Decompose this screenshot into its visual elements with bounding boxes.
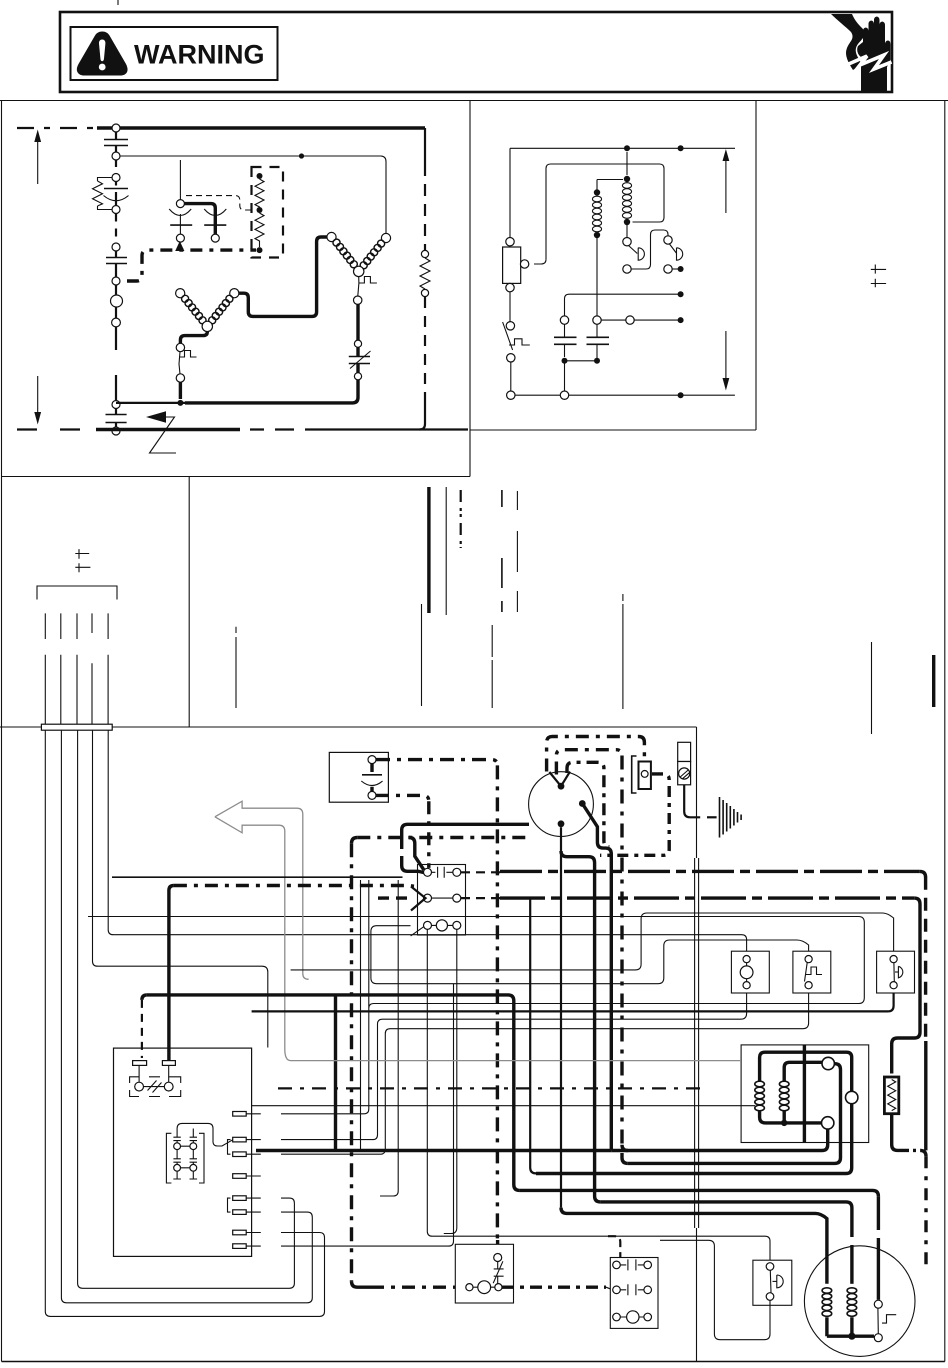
wire: row 1201.9 to coil M2 column — [600, 1202, 852, 1237]
node: transformer terminal T1 — [822, 1057, 834, 1069]
wire: A2 corner down x=920 and jog to center column — [892, 898, 920, 1073]
node: terminal — [112, 277, 120, 285]
wire: right page border — [944, 101, 946, 1362]
wire: A1 corner down into dashed column x=925.6 — [920, 871, 926, 877]
relay top contact gap — [432, 867, 453, 878]
wire: dash-dot column x=428.8 to relay — [427, 801, 430, 868]
node: large terminal — [111, 295, 123, 307]
capacitor plates — [370, 764, 373, 772]
wire: bundle w2 loop to terminal — [61, 730, 312, 1303]
node: box3 terminals blade and bell — [890, 956, 897, 963]
wire: thin rail y=156 to winding — [120, 156, 386, 234]
wire: staircase branch down to row 1212.2 — [560, 827, 562, 1207]
warning triangle icon — [77, 32, 128, 76]
wire: compressor R diagonal into column x=611.3 — [582, 804, 611, 1151]
wire: dashed link box G to box H — [502, 1285, 606, 1288]
wire: hanging drop x=421.5 — [421, 604, 423, 706]
ground screw — [679, 768, 690, 779]
node: junction on rail — [299, 153, 304, 158]
node: overload top terminal — [176, 343, 184, 351]
node: overload bottom terminal — [176, 374, 184, 382]
wire: row 969.9 with jog up to row 913 to box3 — [291, 913, 894, 970]
wire: t2 run up to row 1019 to fan box1 — [281, 989, 747, 1139]
wire: dashed column continues — [115, 214, 117, 243]
transformer coil S — [779, 1081, 789, 1111]
dimension arrow lower right — [725, 331, 727, 379]
top-middle schematic: low-voltage control section — [503, 145, 735, 399]
wire: divider between left and middle top boxes x=470 — [469, 101, 471, 477]
capacitor C1 — [560, 316, 568, 324]
wire: dashed drop to bottom rail — [424, 297, 426, 392]
wire: horizontal divider y=727 — [0, 726, 697, 728]
board terminal t7 — [233, 1230, 247, 1235]
wire: thick jumper between contacts — [184, 204, 215, 235]
wire: D loop to start device — [547, 737, 645, 772]
node: sensor terminals row1 — [174, 1143, 181, 1150]
aux contact box H2 — [753, 1260, 792, 1305]
arrow marker left (grey) — [215, 801, 309, 979]
wire: coil S top to T1 — [784, 1062, 822, 1081]
wire: E loop into dashed column x=622 — [556, 750, 622, 775]
compressor circle — [529, 772, 594, 837]
wire: dash-dot from cap bottom to relay column — [376, 795, 429, 801]
node: box1 terminals and coil — [743, 956, 750, 963]
node: capacitor HERM terminal — [368, 756, 376, 764]
resistor R zigzag — [888, 1080, 896, 1111]
wire: t3 run up to row 1028.7 to box2 — [281, 989, 809, 1154]
dimension arrow upper left — [37, 141, 39, 184]
wire: row 1150.5 right segment to T3 — [611, 1129, 827, 1150]
wire: jumper link with slashes — [144, 1081, 165, 1093]
wire: open arrowhead into relay mid — [411, 887, 426, 911]
node: rail junction dot — [177, 400, 183, 406]
transformer box outline — [741, 1045, 869, 1143]
wire: A1 column solid part — [924, 1041, 927, 1150]
node: compressor terminals C R S — [558, 783, 565, 790]
wire: C1 feed rail y=294.2 — [565, 294, 681, 316]
node: rect top terminal — [506, 238, 514, 246]
wire: thick drop x=428.9 — [427, 487, 430, 613]
wire: bottom dash-dot rail y=430 — [17, 428, 82, 430]
relay bottom blade and motor dot — [411, 927, 424, 936]
node: strip row1 contacts — [613, 1261, 621, 1269]
node: transformer terminal T3 — [822, 1117, 834, 1129]
wire: dash-dot drop x=460.7 — [460, 490, 462, 548]
node: rect side terminal — [520, 260, 528, 268]
node: contact1 bottom terminal — [176, 234, 184, 242]
bottom misc rows and small component boxes — [252, 951, 915, 1339]
wire: bridge S1 bottom to S2 top — [631, 230, 668, 269]
wire: conduit double line on center divider — [695, 858, 699, 1228]
motor coil M1 — [822, 1288, 832, 1317]
start device bracket — [632, 756, 637, 793]
ground symbol — [720, 797, 742, 838]
wire: thick stub x=933.7 — [932, 655, 935, 707]
node: motor switch bottom — [874, 1334, 882, 1342]
wire: middle box right edge x=756 — [755, 101, 757, 431]
node: terminal — [112, 243, 120, 251]
wire: label stub x=236 — [235, 627, 237, 708]
electric shock hand icon — [831, 14, 892, 92]
node: resistor RH bottom terminal — [421, 289, 428, 296]
node: bottom rail left terminal — [507, 391, 515, 399]
wire: drop x=530.2 from A2 row to row 1173.4 — [530, 898, 536, 1173]
node: motor switch top — [874, 1300, 882, 1308]
node: strip row2 contacts — [613, 1286, 621, 1294]
node: terminal — [112, 174, 120, 182]
pressure switch PS — [506, 322, 514, 330]
wire: F loop into column x=603.9 — [567, 762, 609, 846]
node: thermostat terminals — [466, 1284, 473, 1291]
wire: drop x=518.5 — [516, 491, 518, 612]
crop marks left column — [75, 549, 90, 572]
wire: stub row 2 — [45, 655, 108, 724]
wire: stub x=871.5 — [871, 642, 873, 734]
control board outline — [114, 1048, 252, 1256]
contactor M contact 2 arc — [204, 209, 226, 216]
wire: thick row 994.9 from board — [147, 995, 520, 1191]
capacitor CA upper plates — [104, 140, 128, 146]
wire: aux bottom loop to left — [660, 1240, 770, 1339]
node: terminal T1 — [112, 152, 120, 160]
wire: second rail y=164 with drops — [534, 164, 664, 264]
board terminal t8 — [233, 1244, 247, 1249]
page top tick — [117, 0, 119, 5]
wire: motor common bottom — [827, 1317, 874, 1336]
thermostat contact with slash — [493, 1261, 503, 1283]
wire: coil1 to contact1 — [626, 222, 628, 238]
contact S2 — [664, 236, 672, 244]
sensor stands — [173, 1171, 197, 1179]
wire: relay left bottom drop to row 1236 to aux box — [427, 929, 770, 1262]
motor circle — [804, 1246, 915, 1357]
arrowhead up on control run — [175, 241, 184, 251]
terminal strip box H — [610, 1258, 658, 1329]
wire: bundle w3 loop to terminal — [78, 730, 295, 1288]
run capacitor box — [329, 752, 388, 802]
wire: A2 row 898.1 from relay to right — [461, 897, 500, 899]
sensor contact block brackets — [166, 1133, 204, 1183]
wire: dashed row 885.5 from board — [174, 884, 414, 888]
banner inner label box — [71, 27, 278, 80]
capacitor CB plate and arc — [104, 188, 128, 190]
relay mid link — [432, 897, 453, 899]
transformer core bar — [803, 1045, 806, 1143]
sensor contact plates row2 — [173, 1150, 197, 1163]
wire: coil2 drop to capacitor — [596, 235, 598, 316]
wire: dash-dot column x=351.5 down to defrost row — [352, 838, 358, 844]
node: rect bottom terminal — [506, 283, 514, 291]
resistor RC — [255, 213, 264, 247]
node: Y1 center — [354, 266, 364, 276]
dimension arrow upper right — [725, 160, 727, 213]
wire: B left corner down to relay — [402, 824, 408, 840]
node: junction dot — [257, 207, 263, 213]
wire: C branch down into relay arrow — [409, 838, 424, 870]
banner outer box — [60, 12, 892, 92]
node: switch bottom terminal — [354, 373, 361, 380]
node: terminal on bottom rail — [112, 427, 120, 435]
field wiring bracket — [37, 586, 117, 600]
wire: A1 dashes from relay — [461, 871, 500, 873]
wire: staircase row 1150.5 left from board area — [334, 995, 337, 1151]
wire: bundle w1 loop to terminal — [45, 730, 324, 1316]
wire: thick to bottom rail junction — [185, 380, 358, 403]
field splice marker arrow — [146, 411, 166, 422]
wire: long row 870.9 A1 — [112, 876, 403, 878]
capacitor CC plates — [106, 258, 127, 264]
wire: dash-dot from cap top to defrost column — [376, 760, 497, 766]
winding Y1 left coil — [327, 232, 336, 241]
wire: grey row 1061 — [285, 1049, 741, 1061]
wire: terminal bracket pair marks — [228, 1140, 231, 1213]
bottom-right: heater resistor, transformer, motor feeds — [256, 827, 926, 1356]
wire: L1 top dash-dot feed — [17, 127, 97, 129]
middle band: field wiring drops — [37, 487, 623, 730]
jumper plug dashed box — [130, 1077, 181, 1097]
wire: rail continues thin to T-column — [116, 402, 185, 404]
wire: relay right bottom drop — [444, 929, 457, 1233]
switch HP plates with slash — [349, 357, 370, 364]
warning banner — [60, 12, 892, 92]
board terminal t4 — [233, 1174, 247, 1179]
wire: sensor link to terminal — [177, 1123, 233, 1146]
defrost relay box — [418, 865, 466, 936]
wire: t8 run to row 1105.7 branch — [281, 984, 454, 1246]
wire: bundle w5 over to fan box1 — [108, 730, 746, 955]
wire: capacitor commons — [565, 360, 598, 362]
wire: start device to ground column — [600, 774, 669, 855]
wire: right branch down x=425 — [424, 128, 426, 164]
node: aux terminals blade bell — [766, 1263, 774, 1271]
wire: C2 rail y=320.1 — [601, 319, 680, 321]
board terminal lug B — [162, 1061, 175, 1066]
screw terminal strip — [678, 742, 691, 761]
node: terminal — [112, 318, 121, 327]
wire: terminal stubs — [246, 1114, 261, 1246]
wire: drop x=446.2 — [445, 487, 447, 615]
wire: stub row 1 — [45, 613, 108, 639]
board terminal lug A — [133, 1061, 147, 1066]
wire: lug B drop to jumper — [168, 1065, 170, 1082]
wire: transformer primary loop and row 1173.5 — [536, 1052, 852, 1173]
resistor RA bleed with taps — [98, 178, 113, 210]
warning triangle exclamation — [99, 40, 105, 62]
wire: dashed column x=116 — [115, 160, 117, 174]
node: sensor terminals row2 — [174, 1164, 181, 1171]
overload pulse symbol Y2 — [179, 351, 197, 365]
wire: branch down into box H top — [608, 1236, 620, 1258]
wire: thin row 1105.7 — [252, 1105, 755, 1107]
wire: row 1190.4 to motor switch column — [520, 1190, 879, 1196]
wire: left drop to transformer rect — [509, 148, 511, 237]
transformer TR rect — [503, 247, 521, 283]
wire: S2 bottom stub to dot — [672, 268, 680, 270]
wire: left page border — [1, 101, 3, 1362]
node: relay contacts right column — [453, 868, 461, 876]
wire: top rail y=148.3 — [510, 147, 735, 149]
wire: mid-left divider x=189 — [188, 477, 190, 728]
node: jumper terminal B — [164, 1082, 173, 1091]
wire: dash-dot column x=497.4 down to thermostat — [496, 765, 499, 1240]
wire: Y2 center to overload — [180, 332, 207, 344]
wire: resistor bottom jog right into dashed column — [892, 1114, 906, 1151]
crop marks right column — [871, 265, 886, 288]
transformer coil P — [755, 1081, 765, 1111]
wire: compressor C drop to column x=594.6 — [561, 851, 600, 1202]
board terminal t5 — [233, 1196, 247, 1201]
motor coil M2 — [847, 1288, 857, 1316]
motor switch pulse symbol — [882, 1315, 896, 1323]
wire: screw lead to ground — [684, 785, 700, 818]
node: contact2 bottom terminal — [211, 234, 219, 242]
wire: thick drop to HP switch — [356, 304, 359, 340]
wire: board feed column x=141.9 dashed — [141, 1000, 143, 1058]
wire: middle box bottom edge — [470, 429, 756, 431]
wire: coil P bottom to T3 row — [760, 1111, 822, 1123]
node: junction dot bottom — [257, 247, 263, 253]
wire: center bottom divider x=696.5 — [696, 727, 698, 1362]
bottom-left: wire bundle, loops and control board — [45, 730, 864, 1316]
relay coil dashed box — [252, 167, 284, 258]
wire: thin drop x=360.5 — [360, 880, 362, 1151]
overload pulse symbol Y1 — [359, 277, 377, 284]
contactor M contact 1 arc — [169, 209, 191, 216]
wire: coil S bottom — [783, 1111, 786, 1123]
node: transformer terminal T2 — [846, 1091, 858, 1103]
winding Y1 right coil — [381, 233, 390, 242]
wire: compressor top V stubs — [549, 772, 570, 787]
wire: dashed C row 837.5 to compressor — [357, 836, 529, 839]
node: L1 terminal — [112, 124, 120, 132]
board terminal t6 — [233, 1210, 247, 1215]
bottom-middle: run capacitor box, arrow, relay, compressor — [112, 737, 920, 1288]
motor switch blade — [877, 1308, 879, 1333]
board terminal t1 — [233, 1112, 247, 1117]
wire: dashed drop x=501.2 — [501, 490, 503, 612]
node: Y1 lower terminal — [354, 296, 362, 304]
relay coil K2 — [597, 180, 623, 194]
node: Y2 center — [202, 321, 212, 331]
wire: drop x=623.8 — [622, 594, 624, 709]
wire: bottom page border — [2, 1361, 945, 1363]
node: junction dot coil S — [781, 1120, 787, 1126]
resistor R heat strip box — [884, 1077, 898, 1114]
node: jumper terminal A — [135, 1082, 144, 1091]
node: terminal — [112, 401, 120, 409]
capacitor CD plates — [106, 415, 127, 423]
wire: thin branch x=398.2 from row 979.3 — [380, 880, 398, 1196]
capacitor C2 — [593, 316, 601, 324]
wire: dashed row 1088.4 — [278, 1087, 700, 1089]
board terminal t2 — [233, 1137, 247, 1142]
wire: row 1163.4 to T1 drop — [622, 1145, 628, 1151]
wire: Y2 right circle loop to Y1 — [239, 237, 327, 316]
wire: top section divider — [0, 100, 948, 102]
wire: lug A drop to jumper — [138, 1065, 140, 1082]
top-left schematic: compressor contactor high-voltage section — [17, 124, 468, 453]
sensor contact plates row1 — [173, 1129, 197, 1141]
contact S1 — [623, 238, 631, 246]
node: strip row3 with coil — [613, 1313, 621, 1321]
wire: row 979.3 with jog up to row 940 to box2 — [371, 926, 809, 984]
right column marks — [871, 265, 934, 735]
node: contact1 top terminal — [176, 200, 184, 208]
node: resistor RH top terminal — [421, 250, 428, 257]
plug connector block — [41, 724, 112, 730]
start device body — [639, 762, 651, 790]
node: rail junction dots — [624, 145, 630, 151]
wire: thin dashed link to resistor chain — [186, 196, 255, 210]
node: switch top terminal — [354, 340, 361, 347]
board terminal t3 — [233, 1152, 247, 1157]
wire: board feed thick column x=168.9 — [169, 886, 174, 1061]
wire: thick B row 824.3 to compressor — [408, 823, 530, 826]
contact box3 — [877, 951, 915, 993]
pressure control box1 — [731, 951, 769, 993]
resistor RB — [255, 179, 264, 210]
dimension arrow lower left — [37, 376, 39, 413]
node: relay contacts left column — [424, 868, 432, 876]
resistor RH crankcase heater — [420, 258, 430, 289]
node: junction dot top — [257, 173, 263, 179]
node: start device center — [641, 771, 648, 778]
pressure switch box2 — [793, 951, 831, 993]
wire: bottom rail y=395.2 — [515, 394, 735, 396]
wire: t1 run up to row 1003 and over to U-turn — [88, 880, 864, 1114]
node: capacitor C terminal — [368, 791, 376, 799]
thermostat links — [473, 1286, 495, 1288]
wire: left box bottom edge — [2, 476, 471, 478]
defrost thermostat box G — [455, 1244, 513, 1303]
wire: thick segments to lower cap — [115, 327, 117, 400]
svg-text:WARNING: WARNING — [134, 40, 265, 70]
node: terminal — [112, 206, 120, 214]
wire: dashed defrost row y=1283.9 — [371, 1285, 462, 1288]
wire: dashed row 898.1 stub left — [378, 896, 409, 899]
wire: bundle w4 over to board — [93, 730, 268, 1048]
node: box2 terminals and blade — [805, 956, 812, 963]
node: motor common dot — [848, 1333, 855, 1340]
wire: medium row 1011.4 from box3 — [252, 989, 894, 1011]
relay coil K1 — [626, 152, 628, 175]
winding Y2 left coil — [176, 289, 185, 298]
wire: thick dash-dot control run y=250 — [127, 250, 256, 281]
winding Y2 right coil — [230, 289, 239, 298]
wire: rect bottom to pressure switch — [509, 292, 511, 322]
